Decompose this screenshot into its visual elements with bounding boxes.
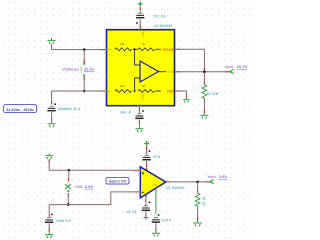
svg-text:out: out bbox=[152, 183, 157, 187]
resistor R bottom-right inside U2 bbox=[138, 90, 155, 93]
wire feed to -input bbox=[135, 78, 140, 91]
svg-text:Vee: Vee bbox=[141, 94, 145, 100]
battery V1 plates bbox=[142, 155, 150, 160]
pin terminal green U2 OUT bbox=[175, 71, 177, 73]
ground G2 bbox=[48, 122, 56, 128]
probe polarity marks green bbox=[81, 67, 82, 68]
pin terminal green U2 V- bbox=[139, 105, 141, 107]
svg-text:3.8V: 3.8V bbox=[219, 174, 228, 179]
pin lead red U1 +IN bbox=[134, 169, 140, 171]
wire bottom rail to IN- pin of U2 bbox=[52, 90, 106, 92]
svg-text:12k: 12k bbox=[120, 42, 125, 46]
op-amp triangle inside U2 bbox=[140, 61, 159, 82]
pin lead red V2 bottom bbox=[145, 213, 147, 216]
pin terminal green U1 V- bbox=[145, 195, 147, 197]
ground bar V2 bbox=[144, 218, 149, 219]
pin lead red into U2 IN+ bbox=[100, 49, 105, 51]
wire feed to +input bbox=[135, 49, 140, 65]
pin lead red above G9 bbox=[197, 218, 199, 221]
svg-text:Vcc: Vcc bbox=[141, 31, 145, 37]
node B junction bottom rail bbox=[83, 90, 86, 93]
wire node C down to R3 bbox=[203, 72, 205, 85]
node junction top divider bbox=[134, 48, 136, 50]
svg-text:12k: 12k bbox=[120, 84, 125, 88]
svg-text:Vcell 3.8: Vcell 3.8 bbox=[56, 219, 71, 223]
pin lead red Vcell top bbox=[48, 214, 50, 218]
wire bottom rail to U1 -IN bbox=[49, 192, 133, 205]
op-amp U1 triangle bbox=[140, 167, 166, 198]
pin lead red battery top bbox=[51, 101, 53, 105]
pin lead red at Vout2 flag bbox=[205, 181, 208, 183]
pin terminal green U2 IN+ bbox=[106, 49, 108, 51]
pin lead red V2 top bbox=[145, 198, 147, 201]
pin terminal green U2 IN- bbox=[106, 90, 108, 92]
minus mark U1 bbox=[142, 191, 145, 193]
svg-text:4k: 4k bbox=[142, 42, 146, 46]
pin lead red below G6 bbox=[48, 159, 50, 162]
pin lead red Vee top bbox=[138, 107, 140, 110]
pin lead red RL bottom bbox=[197, 206, 199, 209]
wire Vcell to ground G7 bbox=[48, 223, 50, 232]
pin lead red probe top bbox=[83, 60, 85, 63]
wire probe VM1 stub bbox=[68, 170, 70, 178]
svg-text:Vout: Vout bbox=[225, 64, 234, 69]
wire VM1 to bottom rail bbox=[67, 193, 69, 205]
op-amp U2 INA592 body bbox=[107, 30, 175, 106]
plus mark U1 bbox=[142, 172, 145, 175]
svg-text:R3 10k: R3 10k bbox=[207, 92, 219, 96]
node F output junction bbox=[196, 181, 199, 184]
svg-text:V2 24: V2 24 bbox=[126, 210, 136, 214]
power plus flag Vcc bbox=[138, 1, 143, 6]
wire U1 out to Vout flag bbox=[166, 181, 209, 183]
probe flag Vout2 green bbox=[209, 180, 214, 184]
wire battery Vcc to U2 V+ pin bbox=[139, 19, 141, 29]
svg-text:U1 INA918: U1 INA918 bbox=[166, 186, 185, 190]
pin terminal green U2 REF bbox=[175, 90, 177, 92]
pin lead red Vcell bottom bbox=[48, 228, 50, 231]
resistor R top-right inside U2 bbox=[138, 48, 155, 51]
svg-text:IN-: IN- bbox=[108, 89, 112, 93]
node E junction bottom rail bbox=[67, 203, 70, 206]
polarity dot Vref bbox=[158, 214, 160, 216]
svg-text:3.8V: 3.8V bbox=[85, 184, 94, 189]
resistor RL bbox=[195, 193, 200, 206]
svg-text:U2 INA592: U2 INA592 bbox=[154, 24, 173, 28]
node C output junction bbox=[203, 70, 206, 73]
wire R3 to ground G3 bbox=[203, 98, 205, 113]
wire inside top row bbox=[133, 48, 139, 50]
svg-text:32.4V: 32.4V bbox=[84, 67, 95, 72]
polarity dot Vee bbox=[142, 110, 144, 112]
pin lead red into node from SENSE bbox=[203, 68, 205, 72]
wire rail down to battery Vbattery bbox=[51, 91, 53, 105]
svg-text:Vbattery 32.4: Vbattery 32.4 bbox=[58, 107, 81, 111]
pin lead red at G1 bbox=[51, 44, 53, 47]
wire battery V1 to U1 V+ bbox=[146, 161, 148, 170]
pin lead red SENSE bbox=[176, 48, 179, 50]
pin terminal green U1 V+ bbox=[146, 169, 148, 171]
pin lead red Vref bottom bbox=[155, 227, 157, 230]
ground G1 top-left bbox=[48, 38, 56, 44]
pin lead red above G3 bbox=[203, 110, 205, 113]
annotation box Gain=1 V/V bbox=[106, 178, 129, 184]
wire OUT pin to Vout flag bbox=[176, 71, 229, 73]
ground G4 bbox=[183, 98, 190, 103]
polarity dot V1 bbox=[149, 150, 151, 152]
wire node F down to RL bbox=[197, 182, 199, 193]
node A junction top rail bbox=[83, 48, 86, 51]
wire U1 V- pin to battery V2 bbox=[145, 195, 147, 205]
pin lead red VM1 bottom bbox=[67, 193, 69, 196]
svg-text:IN+: IN+ bbox=[108, 48, 113, 52]
wire probe stub to bottom rail bbox=[83, 77, 85, 92]
svg-text:Vout: Vout bbox=[208, 174, 217, 179]
svg-text:Vref 0: Vref 0 bbox=[161, 218, 172, 222]
polarity dot V2 bbox=[149, 201, 151, 203]
wire rail corner down to battery Vcell bbox=[48, 205, 50, 214]
wire battery to ground G2 bbox=[51, 112, 53, 122]
svg-text:Gain=1 V/V: Gain=1 V/V bbox=[109, 180, 128, 184]
polarity dot Vbattery bbox=[54, 103, 56, 105]
wire RL to ground G9 bbox=[197, 206, 199, 220]
wire flag to battery Vcc bbox=[139, 6, 141, 12]
svg-text:Out: Out bbox=[168, 70, 174, 74]
pin lead red at Vout flag bbox=[225, 71, 228, 73]
pin lead red R3 top bbox=[203, 81, 205, 84]
wire REF of U1 to battery Vref green bbox=[155, 189, 157, 214]
wire battery Vref to ground G8 bbox=[155, 223, 157, 231]
ground G3 bbox=[200, 113, 208, 119]
wire probe stub from node A bbox=[83, 50, 85, 63]
resistor R top-left inside U2 bbox=[115, 48, 132, 51]
resistor R bottom-left inside U2 bbox=[115, 90, 132, 93]
polarity dot Vcc bbox=[136, 22, 138, 24]
wire G6 to top rail of A1 circuit bbox=[49, 159, 133, 170]
pin lead red probe bottom bbox=[83, 77, 85, 80]
svg-text:4k: 4k bbox=[142, 84, 146, 88]
svg-text:Vbattery1: Vbattery1 bbox=[62, 67, 80, 72]
pin lead red R3 bottom bbox=[203, 98, 205, 101]
probe terminal green bottom bbox=[83, 75, 85, 77]
svg-text:V1 9: V1 9 bbox=[152, 155, 161, 159]
ground G9 bbox=[193, 221, 202, 227]
probe VM1 cross bbox=[65, 184, 71, 189]
wire triangle out to OUT pin bbox=[159, 71, 167, 73]
battery Vcell plates bbox=[45, 218, 53, 223]
wire battery V2 to terminal bbox=[145, 211, 147, 217]
probe terminal green VM1 bbox=[67, 190, 69, 192]
wire from G1 down to top rail bbox=[51, 44, 53, 50]
svg-text:VM1: VM1 bbox=[75, 184, 84, 189]
wire SENSE to output node bbox=[176, 49, 204, 72]
battery Vee plates bbox=[135, 114, 143, 119]
battery Vref plates bbox=[152, 218, 160, 223]
node D junction bbox=[68, 169, 71, 172]
pin lead red battery bottom bbox=[51, 118, 53, 122]
pin lead red U1 out bbox=[166, 181, 170, 183]
battery Vcc plates bbox=[136, 13, 144, 18]
wire battery Vee to ground G5 bbox=[138, 119, 140, 126]
svg-text:Vee -8: Vee -8 bbox=[120, 111, 132, 115]
pin terminal green U1 -IN bbox=[140, 191, 142, 193]
ground G5 bbox=[135, 127, 143, 133]
ground G7 bbox=[45, 232, 53, 238]
svg-text:32.4Vdc - 48Vdc: 32.4Vdc - 48Vdc bbox=[6, 108, 34, 112]
ground G8 bbox=[152, 231, 160, 237]
pin lead red U1 V+ bbox=[146, 163, 148, 166]
pin lead red Vee bottom bbox=[138, 120, 140, 123]
pin terminal green U1 +IN bbox=[140, 170, 142, 172]
svg-text:RL 1k: RL 1k bbox=[202, 196, 206, 205]
ground G6 bottom circuit bbox=[45, 154, 53, 160]
svg-text:Vcc 24: Vcc 24 bbox=[153, 15, 165, 19]
pin terminal green U2 SENSE bbox=[175, 49, 177, 51]
wire REF pin to ground G4 bbox=[176, 91, 186, 98]
svg-text:16.2V: 16.2V bbox=[237, 64, 248, 69]
wire to REF pin bbox=[156, 90, 161, 92]
pin lead red RL top bbox=[197, 190, 199, 193]
battery Vbattery plates bbox=[47, 106, 55, 111]
wire to SENSE pin bbox=[156, 48, 161, 50]
wire flag to battery V1 bbox=[146, 146, 148, 154]
wire U2 V- pin to battery Vee bbox=[138, 106, 140, 113]
probe flag Vout green bbox=[229, 69, 234, 73]
pin lead red REF bbox=[176, 90, 179, 92]
annotation box 32.4Vdc-48Vdc bbox=[4, 105, 37, 113]
pin lead red V1 top bbox=[146, 147, 148, 151]
polarity dot Vcell bbox=[51, 214, 53, 216]
pin lead red OUT bbox=[176, 71, 179, 73]
node junction bottom divider bbox=[134, 90, 136, 92]
pin lead red U1 -IN bbox=[134, 191, 140, 193]
probe terminal green top bbox=[83, 63, 85, 65]
svg-text:REF: REF bbox=[167, 89, 174, 93]
wire top rail to IN+ pin of U2 bbox=[52, 49, 106, 51]
svg-text:SENSE: SENSE bbox=[162, 48, 175, 52]
pin lead red Vcc top bbox=[139, 7, 141, 10]
pin lead red above G4 bbox=[186, 95, 188, 98]
pin lead red U2 V+ bbox=[139, 25, 141, 29]
pin lead red VM1 top bbox=[68, 178, 70, 181]
power plus flag V1 bbox=[144, 141, 149, 146]
pin terminal green U2 V+ bbox=[139, 28, 141, 30]
resistor R3 bbox=[202, 85, 207, 99]
pin lead red into U2 IN- bbox=[100, 90, 105, 92]
battery V2 plates bbox=[142, 206, 150, 211]
